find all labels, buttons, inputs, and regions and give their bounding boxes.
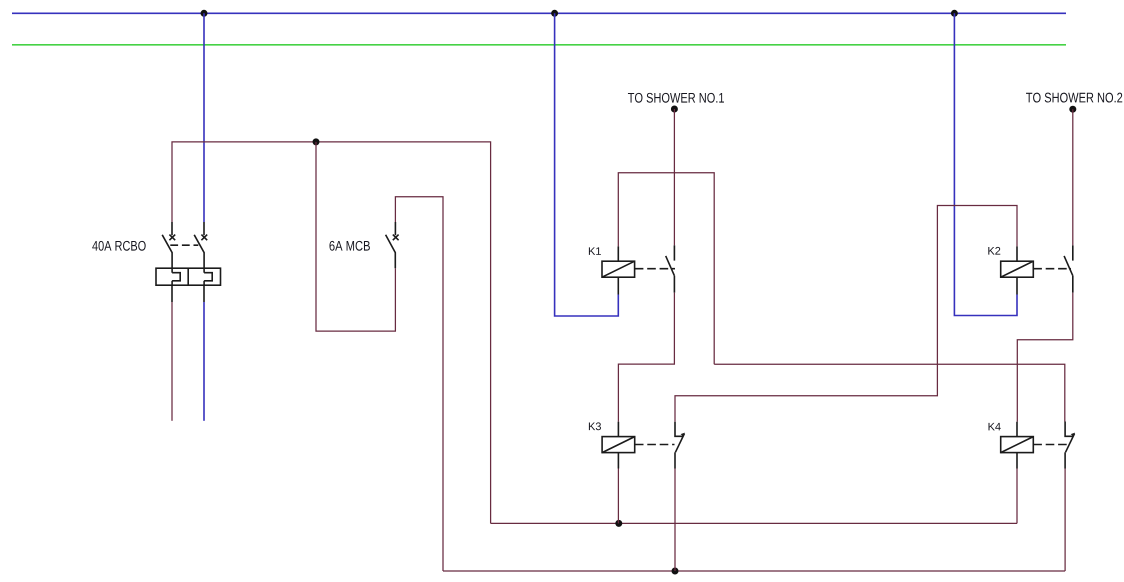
wire shower 1 feed to K1 contact: [673, 109, 675, 245]
junction on L bus at K2 coil drop: [951, 10, 958, 17]
wire K4 contact return to rail D: [1064, 469, 1066, 572]
label TO SHOWER NO.1: [628, 93, 724, 103]
junction on L bus at K1 coil drop: [551, 10, 558, 17]
contact K2 (NO): [1064, 245, 1073, 292]
wire MCB top to dropper: [395, 197, 443, 571]
K1 coil-contact link (dashed): [635, 268, 675, 270]
wire L bus to RCBO pole 2 (blue drop): [203, 13, 205, 222]
relay coil K1: [602, 246, 635, 294]
junction on feed bus at MCB branch: [313, 138, 320, 145]
wire K3 coil return to rail C: [617, 469, 619, 524]
junction rail D / K3 contact return: [672, 568, 679, 575]
net E earth bus (green): [12, 44, 1066, 46]
wire bottom rail D (MCB feed to K3 contact and K4 contact): [443, 570, 1065, 572]
wire RCBO pole 1 load tail: [171, 302, 173, 421]
relay coil K3: [602, 422, 635, 469]
breaker MCB: [386, 222, 399, 268]
breaker RCBO pole 2: [194, 222, 207, 268]
label TO SHOWER NO.2: [1026, 93, 1122, 103]
node TO SHOWER NO.2 tap: [1069, 106, 1076, 113]
breaker RCBO pole 1: [162, 222, 175, 268]
label 40A RCBO: [92, 241, 145, 251]
label K4: [989, 423, 1001, 431]
label 6A MCB: [329, 241, 369, 251]
relay coil K2: [1001, 246, 1034, 294]
K4 coil-contact link (dashed): [1033, 444, 1070, 446]
wire shower 2 feed to K2 contact: [1072, 109, 1074, 245]
net L supply bus (blue): [12, 12, 1066, 14]
contact K3 (NC): [675, 422, 685, 469]
node feed bus (maroon) to RCBO pole 1: [172, 142, 491, 524]
label K2: [988, 247, 1000, 255]
K3 coil-contact link (dashed): [635, 444, 675, 446]
RCBO mechanical link (dashed): [170, 244, 198, 246]
relay coil K4: [1001, 422, 1034, 469]
label K1: [589, 247, 601, 255]
wire K2 contact to K4 coil: [1017, 293, 1073, 422]
RCBO residual-current body box: [156, 268, 221, 302]
K2 coil-contact link (dashed): [1033, 268, 1071, 270]
wire K3 contact return to rail D: [674, 469, 676, 572]
wire K2 coil feed loop from K3 contact: [675, 206, 1017, 422]
contact K4 (NC): [1065, 422, 1075, 469]
wire L bus drop to K1 coil return: [555, 13, 619, 316]
wire interlock rail A to K4 contact: [714, 364, 1065, 421]
wire K1 contact to K3 coil: [618, 293, 674, 422]
contact K1 (NO): [666, 245, 675, 292]
wire bottom rail C (coil common): [491, 522, 1017, 524]
wire K4 coil return to rail C: [1016, 469, 1018, 524]
node TO SHOWER NO.1 tap: [671, 106, 678, 113]
wire RCBO pole 2 load tail (neutral): [203, 302, 205, 421]
label K3: [589, 422, 601, 430]
junction on L bus at RCBO drop: [201, 10, 208, 17]
wire L bus drop to K2 coil return: [954, 13, 1017, 315]
junction rail C / K3 coil return: [615, 520, 622, 527]
wire K1 coil feed loop: [618, 173, 714, 364]
wire MCB branch down and across: [316, 142, 395, 331]
